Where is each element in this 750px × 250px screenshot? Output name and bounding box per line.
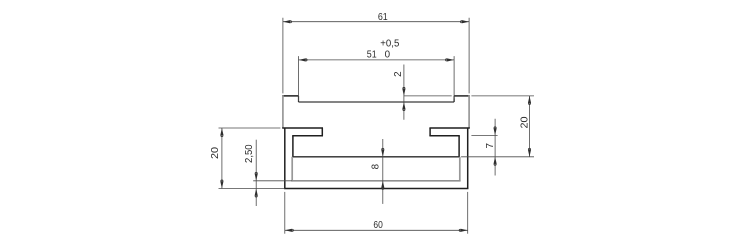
dim 8: dimension line vertical xyxy=(382,139,384,204)
dim 60: arrow right xyxy=(461,229,468,232)
profile: upper outer wall left xyxy=(282,95,284,128)
dim 60: dimension line xyxy=(285,229,468,231)
profile: lower outer wall right xyxy=(467,128,469,189)
dim 51: arrow left xyxy=(299,58,306,61)
svg-text:60: 60 xyxy=(373,220,383,231)
profile: hook top left xyxy=(282,127,323,129)
svg-text:51: 51 xyxy=(367,50,377,61)
dim 7: dimension line vertical xyxy=(494,119,496,176)
dim 7: arrow down to hook bottom xyxy=(494,128,497,135)
profile: recess step right xyxy=(453,96,455,102)
dim 20 left: arrow down xyxy=(220,182,223,189)
profile: lower outer wall left xyxy=(284,128,286,189)
dim 61: arrow right xyxy=(462,20,469,23)
profile: cavity wall left (thin pen) xyxy=(291,157,293,181)
svg-text:2: 2 xyxy=(393,71,404,76)
dim 61: extension line right xyxy=(468,18,470,94)
dim 61: extension line left xyxy=(282,18,284,94)
dim 51: extension line left xyxy=(298,56,300,101)
svg-text:7: 7 xyxy=(485,143,496,148)
dim 7: extension line (hook bottom) xyxy=(471,134,497,136)
dim 20 right: extension line top (shoulder) xyxy=(471,95,534,97)
dim 51: arrow right xyxy=(447,58,454,61)
dim 2: dimension line vertical xyxy=(403,65,405,120)
svg-text:8: 8 xyxy=(371,163,382,169)
dim 61: arrow left xyxy=(283,20,290,23)
dim 8: arrow down to floor xyxy=(381,150,384,157)
dim 2: extension line at shoulder level xyxy=(404,95,452,97)
dim 51: extension line right xyxy=(453,56,455,98)
dim 20 left: extension line top (hook top) xyxy=(219,127,281,129)
svg-text:0: 0 xyxy=(385,50,391,61)
dim 20 right: dimension line xyxy=(529,96,531,157)
dim 60: extension line right xyxy=(467,192,469,234)
dim 61: dimension line xyxy=(283,21,469,23)
profile: hook top right xyxy=(429,127,469,129)
profile: channel floor line xyxy=(292,156,460,158)
profile: recess step left xyxy=(298,96,300,102)
dim 60: extension line left xyxy=(284,192,286,234)
dim 60: arrow left xyxy=(285,229,292,232)
profile: hook outer vertical left xyxy=(321,128,323,136)
svg-text:+0,5: +0,5 xyxy=(380,39,400,50)
dim 2,50: dimension line vertical xyxy=(255,140,257,206)
svg-text:20: 20 xyxy=(520,116,531,129)
dim 20 right: arrow down xyxy=(528,150,531,157)
profile: bottom outer surface xyxy=(284,188,468,190)
profile: cavity bottom line (thin pen) xyxy=(291,180,460,182)
dim 20 left: extension line bottom xyxy=(219,188,285,190)
profile: shoulder top left xyxy=(282,95,298,97)
dim 2,50: extension line (cavity bottom) xyxy=(253,180,292,182)
dim 8: arrow up to cavity bottom xyxy=(381,181,384,188)
svg-text:2,50: 2,50 xyxy=(244,144,255,163)
profile: hook bottom left xyxy=(292,135,323,137)
profile: cavity wall right (thin pen) xyxy=(459,157,461,181)
dim 20 right: arrow up xyxy=(528,96,531,103)
profile: hook outer vertical right xyxy=(429,128,431,136)
dim 20 right: extension line bottom (floor level) xyxy=(461,156,534,158)
dim 7: arrow up to floor level xyxy=(494,157,497,164)
dim 20 left: dimension line xyxy=(221,128,223,189)
dim 20 left: arrow up xyxy=(220,128,223,135)
profile: upper outer wall right xyxy=(468,95,470,128)
svg-text:61: 61 xyxy=(378,12,388,23)
profile: central top surface xyxy=(299,101,455,103)
dim 2,50: arrow down to cavity bottom xyxy=(255,174,258,181)
dim 2,50: arrow up to outer bottom xyxy=(255,189,258,196)
profile: shoulder top right xyxy=(454,95,470,97)
profile: slot wall left xyxy=(292,136,294,157)
dim 2: arrow up to central surface xyxy=(402,102,405,109)
profile: slot wall right xyxy=(458,136,460,157)
dim 51: dimension line xyxy=(299,59,455,61)
profile: hook bottom right xyxy=(429,135,459,137)
dim 2: arrow down to shoulder line xyxy=(402,89,405,96)
svg-text:20: 20 xyxy=(210,146,221,159)
